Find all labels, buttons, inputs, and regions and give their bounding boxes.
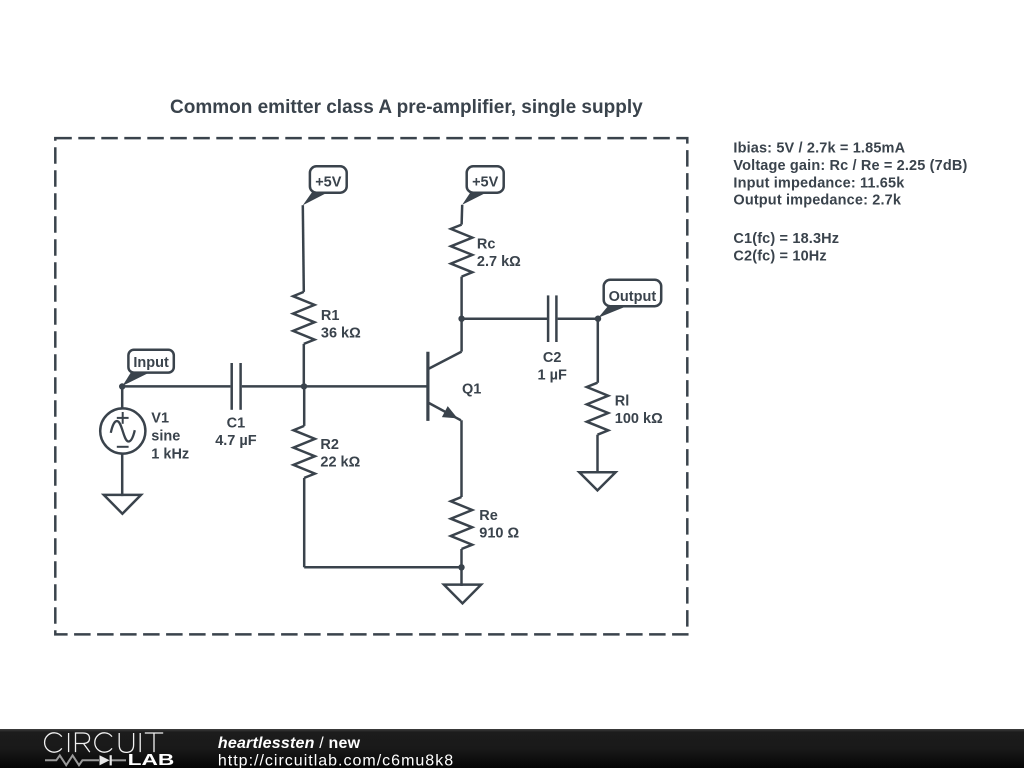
svg-text:Input: Input xyxy=(133,355,169,371)
svg-text:C1: C1 xyxy=(227,416,246,432)
svg-text:Rl: Rl xyxy=(615,394,630,410)
node output xyxy=(595,316,601,322)
wire bottom row xyxy=(304,566,461,569)
node divider junction xyxy=(301,383,307,389)
svg-text:2.7 kΩ: 2.7 kΩ xyxy=(477,254,521,270)
wire input row left xyxy=(122,385,230,388)
svg-text:Input impedance: 11.65k: Input impedance: 11.65k xyxy=(733,175,905,191)
flag +5V (R1) xyxy=(303,166,347,205)
svg-text:Q1: Q1 xyxy=(462,381,481,397)
resistor Re xyxy=(451,497,520,549)
svg-text:LAB: LAB xyxy=(128,752,175,768)
svg-text:910 Ω: 910 Ω xyxy=(479,525,519,541)
svg-text:+5V: +5V xyxy=(315,174,342,190)
voltage source V1 xyxy=(100,408,189,462)
wire junction to R2 xyxy=(303,386,306,426)
wire Rc to collector node xyxy=(460,277,463,319)
svg-text:C2: C2 xyxy=(543,350,562,366)
CircuitLab logo squiggle + diode xyxy=(45,755,126,765)
svg-text:R2: R2 xyxy=(320,437,339,453)
svg-text:Output impedance: 2.7k: Output impedance: 2.7k xyxy=(733,193,901,209)
capacitor C2 xyxy=(538,295,567,383)
svg-text:Output: Output xyxy=(609,289,657,305)
wire C1 to junction xyxy=(242,385,428,388)
annotation text block xyxy=(733,140,967,264)
wire output node to Rl xyxy=(597,319,600,383)
svg-text:C2(fc) = 10Hz: C2(fc) = 10Hz xyxy=(733,248,826,264)
node input xyxy=(119,383,125,389)
svg-text:Voltage gain: Rc / Re = 2.25 (: Voltage gain: Rc / Re = 2.25 (7dB) xyxy=(733,158,967,174)
flag +5V (Rc) xyxy=(462,166,504,205)
wire collector vertical xyxy=(460,319,463,352)
wire R1 to junction xyxy=(303,344,306,387)
wire +5V flag to R1 xyxy=(303,205,304,292)
wire emitter vertical xyxy=(460,420,463,497)
resistor Rc xyxy=(451,225,521,277)
node collector xyxy=(458,316,464,322)
svg-text:1 kHz: 1 kHz xyxy=(151,447,189,463)
svg-text:4.7 µF: 4.7 µF xyxy=(215,433,257,449)
svg-text:sine: sine xyxy=(151,429,180,445)
ground (Re) xyxy=(444,585,481,604)
svg-text:Ibias: 5V / 2.7k = 1.85mA: Ibias: 5V / 2.7k = 1.85mA xyxy=(733,140,905,156)
transistor Q1 xyxy=(428,352,481,421)
svg-text:22 kΩ: 22 kΩ xyxy=(320,455,360,471)
svg-text:Re: Re xyxy=(479,508,498,524)
wire +5V flag to Rc xyxy=(460,205,463,225)
wire input node to V1 xyxy=(121,385,124,409)
wire collector node to C2 xyxy=(462,317,547,320)
wire bottom node to ground xyxy=(460,567,463,586)
node emitter bottom xyxy=(458,564,464,570)
svg-text:100 kΩ: 100 kΩ xyxy=(615,411,663,427)
svg-text:V1: V1 xyxy=(151,410,169,426)
flag Output xyxy=(598,280,661,318)
svg-text:heartlessten / new: heartlessten / new xyxy=(218,735,361,752)
flag Input xyxy=(123,350,174,386)
svg-text:+5V: +5V xyxy=(472,174,499,190)
resistor R1 xyxy=(293,292,361,344)
resistor R2 xyxy=(294,426,361,478)
wire Re to bottom node xyxy=(460,549,463,567)
ground (V1) xyxy=(104,495,141,514)
CircuitLab logo CIRCUIT xyxy=(45,733,164,753)
svg-text:Common emitter class A pre-amp: Common emitter class A pre-amplifier, si… xyxy=(170,97,643,118)
svg-text:1 µF: 1 µF xyxy=(538,368,567,384)
svg-text:Rc: Rc xyxy=(477,236,496,252)
resistor Rl xyxy=(587,383,663,435)
wire V1 to ground xyxy=(121,453,124,496)
schematic dashed border xyxy=(55,138,687,634)
svg-text:C1(fc) = 18.3Hz: C1(fc) = 18.3Hz xyxy=(733,231,839,247)
wire R2 to bottom row xyxy=(303,478,306,567)
svg-text:36 kΩ: 36 kΩ xyxy=(321,325,361,341)
svg-text:http://circuitlab.com/c6mu8k8: http://circuitlab.com/c6mu8k8 xyxy=(218,752,454,768)
footer bar xyxy=(0,729,1024,768)
wire Rl to ground xyxy=(596,435,599,474)
svg-text:R1: R1 xyxy=(321,308,340,324)
wire C2 to output node xyxy=(558,317,598,320)
ground (Rl) xyxy=(579,472,615,490)
capacitor C1 xyxy=(215,363,257,449)
